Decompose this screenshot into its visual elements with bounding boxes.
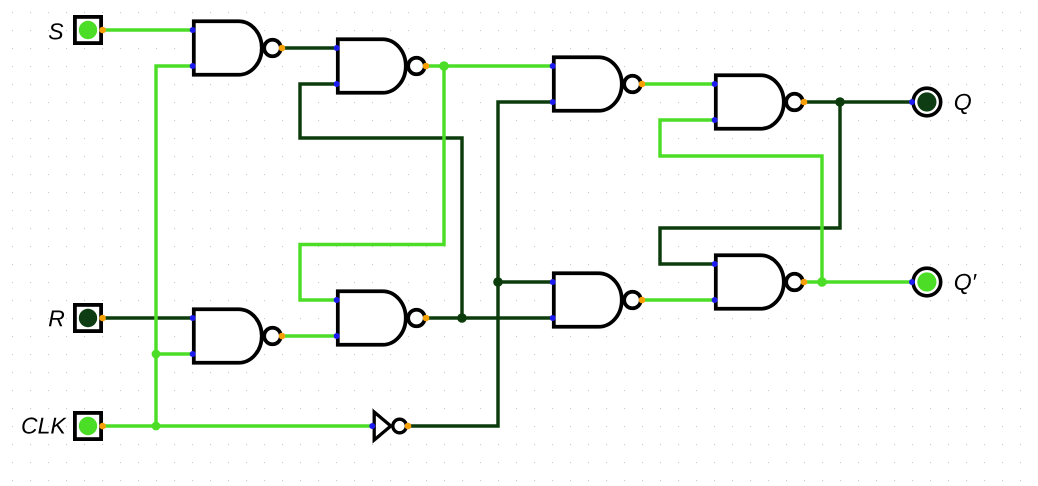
NAND gate U6 [334, 291, 430, 345]
junction Q net [835, 97, 845, 107]
NAND gate U7 [550, 273, 646, 327]
label Q [955, 94, 971, 114]
NAND gate U1 [190, 21, 286, 75]
junction inverted clock net [493, 277, 503, 287]
wire U5 output to U6 input [282, 334, 336, 337]
wire U7 output to U8 input [642, 298, 714, 301]
input pin S [75, 17, 106, 43]
input pin CLK [75, 413, 106, 439]
junction CLK / U5 branch [152, 350, 161, 359]
NAND gate U8 [712, 255, 808, 309]
label CLK [22, 417, 66, 433]
wire U9 output to U3 input (inverted clock) [408, 102, 552, 426]
label Q' [955, 274, 977, 294]
wire R to U5 input [102, 316, 192, 319]
wire feedback U2 output to U6 input [300, 66, 444, 300]
NAND gate U3 [550, 57, 646, 111]
wire feedback U6 output to U2 input [300, 84, 462, 318]
junction Q' net [817, 277, 827, 287]
NAND gate U2 [334, 39, 430, 93]
wire U3 output to U4 input [642, 82, 714, 85]
wire feedback Q to U8 input [660, 102, 840, 264]
wire U6 output to U7 input [426, 316, 552, 319]
junction U2 output net [439, 61, 449, 71]
wire CLK to U9 input [102, 424, 372, 427]
junction U6 output net [457, 313, 467, 323]
input pin R [75, 305, 106, 331]
label S [49, 23, 63, 39]
label R [49, 311, 64, 327]
wire U8 output to pin Q' [804, 280, 912, 283]
wire S to U1 input [102, 28, 192, 31]
output pin Q' [909, 268, 941, 296]
NAND gate U5 [190, 309, 286, 363]
wire inverted clock branch to U7 input [498, 280, 552, 283]
wire U4 output to pin Q [804, 100, 912, 103]
wire U2 output to U3 input [426, 64, 552, 67]
wire feedback Q' to U4 input [660, 120, 822, 282]
junction CLK / U9 branch [152, 422, 161, 431]
NAND gate U4 [712, 75, 808, 129]
wire CLK branch to U1 input [156, 66, 192, 426]
wire U1 output to U2 input [282, 46, 336, 49]
output pin Q [909, 88, 941, 116]
inverter U9 [369, 412, 411, 440]
wire CLK branch to U5 input [156, 352, 192, 355]
